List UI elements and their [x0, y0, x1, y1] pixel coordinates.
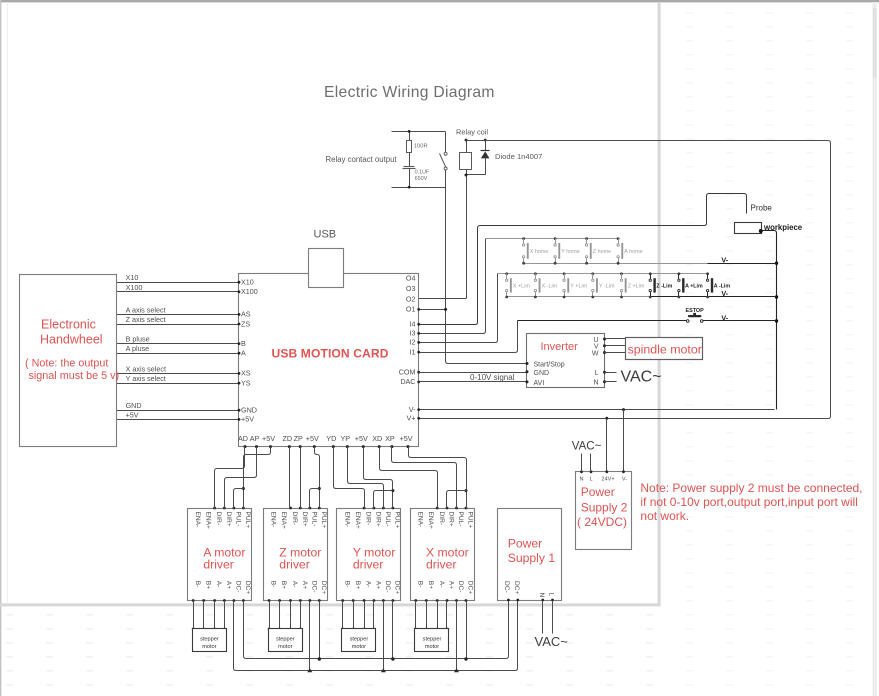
svg-text:driver: driver: [353, 557, 383, 571]
svg-text:24V+: 24V+: [601, 477, 614, 483]
svg-text:DAC: DAC: [400, 377, 415, 386]
svg-text:V-: V-: [409, 405, 416, 414]
svg-text:DC+: DC+: [467, 581, 474, 595]
svg-text:DIR+: DIR+: [375, 512, 382, 527]
svg-text:+5V: +5V: [306, 434, 319, 443]
svg-text:ENA-: ENA-: [343, 512, 350, 528]
svg-text:Power: Power: [508, 537, 543, 551]
svg-text:signal must be 5 v): signal must be 5 v): [29, 370, 120, 382]
svg-text:X home: X home: [530, 249, 549, 255]
svg-text:AVI: AVI: [534, 380, 545, 387]
svg-text:ENA-: ENA-: [194, 512, 201, 528]
svg-text:Relay contact output: Relay contact output: [326, 155, 398, 164]
svg-text:AP: AP: [250, 434, 260, 443]
svg-text:PUL+: PUL+: [320, 512, 327, 529]
svg-text:Electronic: Electronic: [41, 318, 96, 332]
svg-text:V-: V-: [721, 255, 728, 264]
svg-text:V+: V+: [407, 414, 416, 423]
svg-text:Z home: Z home: [593, 249, 611, 255]
svg-text:A +Lim: A +Lim: [685, 283, 703, 289]
svg-text:driver: driver: [426, 557, 456, 571]
svg-text:A: A: [241, 349, 246, 358]
svg-text:Power: Power: [581, 485, 615, 499]
svg-text:A-: A-: [215, 581, 222, 588]
svg-text:N: N: [593, 380, 598, 387]
svg-text:B+: B+: [354, 581, 361, 589]
svg-text:A-: A-: [365, 581, 372, 588]
svg-text:Electric Wiring Diagram: Electric Wiring Diagram: [324, 84, 495, 101]
svg-text:A pluse: A pluse: [126, 344, 150, 353]
svg-text:GND: GND: [241, 406, 257, 415]
svg-text:0.1UF: 0.1UF: [415, 170, 430, 176]
svg-text:B-: B-: [270, 581, 277, 588]
svg-text:VAC~: VAC~: [621, 368, 662, 385]
svg-text:stepper: stepper: [350, 636, 369, 642]
svg-text:0-10V signal: 0-10V signal: [470, 373, 515, 382]
svg-text:motor: motor: [425, 644, 439, 650]
svg-text:DC+: DC+: [244, 581, 251, 595]
svg-text:ENA+: ENA+: [204, 512, 211, 530]
svg-text:L: L: [548, 593, 555, 597]
svg-text:B+: B+: [204, 581, 211, 589]
svg-text:X100: X100: [126, 283, 143, 292]
svg-text:Supply 2: Supply 2: [581, 501, 628, 515]
svg-text:DC-: DC-: [310, 581, 317, 593]
svg-text:GND: GND: [126, 401, 142, 410]
svg-text:Diode 1n4007: Diode 1n4007: [495, 152, 542, 161]
svg-text:AD: AD: [238, 434, 248, 443]
svg-text:driver: driver: [279, 557, 309, 571]
svg-text:DC+: DC+: [513, 581, 520, 595]
svg-text:motor: motor: [352, 644, 366, 650]
svg-text:ENA+: ENA+: [280, 512, 287, 530]
svg-text:driver: driver: [203, 557, 233, 571]
svg-text:DIR+: DIR+: [301, 512, 308, 527]
svg-text:VAC~: VAC~: [572, 441, 602, 453]
svg-text:ENA+: ENA+: [354, 512, 361, 530]
svg-text:V-: V-: [721, 313, 728, 322]
svg-text:I4: I4: [410, 320, 416, 329]
svg-text:DC-: DC-: [384, 581, 391, 593]
svg-text:DIR-: DIR-: [438, 512, 445, 526]
svg-text:( 24VDC): ( 24VDC): [577, 515, 627, 529]
svg-text:stepper: stepper: [200, 636, 219, 642]
svg-text:DIR+: DIR+: [225, 512, 232, 527]
svg-text:Inverter: Inverter: [541, 341, 579, 353]
svg-text:Handwheel: Handwheel: [40, 333, 103, 347]
svg-text:( Note: the output: ( Note: the output: [25, 358, 108, 370]
svg-text:YD: YD: [326, 434, 336, 443]
svg-text:N: N: [538, 593, 545, 598]
svg-text:A+: A+: [448, 581, 455, 589]
svg-text:X -Lim: X -Lim: [542, 283, 558, 289]
svg-text:B: B: [241, 339, 246, 348]
svg-text:X100: X100: [241, 287, 258, 296]
svg-text:DIR-: DIR-: [215, 512, 222, 526]
svg-text:A+: A+: [301, 581, 308, 589]
svg-text:Y -Lim: Y -Lim: [599, 283, 615, 289]
svg-text:+5V: +5V: [126, 410, 139, 419]
svg-text:DC+: DC+: [320, 581, 327, 595]
svg-text:Supply 1: Supply 1: [508, 551, 556, 565]
svg-text:Y home: Y home: [561, 249, 579, 255]
svg-text:PUL-: PUL-: [235, 512, 242, 527]
svg-text:X10: X10: [241, 278, 254, 287]
svg-text:X axis select: X axis select: [126, 364, 166, 373]
svg-text:O2: O2: [406, 294, 416, 303]
svg-text:not work.: not work.: [640, 509, 689, 523]
svg-text:+5V: +5V: [400, 434, 413, 443]
svg-text:PUL-: PUL-: [310, 512, 317, 527]
svg-text:ENA-: ENA-: [270, 512, 277, 528]
svg-text:ZD: ZD: [283, 434, 293, 443]
svg-text:X10: X10: [126, 273, 139, 282]
svg-text:stepper: stepper: [276, 636, 295, 642]
svg-text:A-: A-: [291, 581, 298, 588]
svg-text:PUL+: PUL+: [467, 512, 474, 529]
svg-text:O3: O3: [406, 284, 416, 293]
svg-text:spindle motor: spindle motor: [628, 343, 702, 357]
svg-text:Probe: Probe: [751, 204, 773, 213]
svg-text:Start/Stop: Start/Stop: [534, 362, 565, 369]
svg-text:V-: V-: [622, 477, 627, 483]
svg-text:X +Lim: X +Lim: [513, 283, 530, 289]
svg-text:N: N: [579, 477, 583, 483]
svg-text:DIR-: DIR-: [365, 512, 372, 526]
svg-text:YS: YS: [241, 378, 251, 387]
svg-text:USB MOTION CARD: USB MOTION CARD: [272, 346, 389, 360]
svg-text:if not 0-10v port,output port,: if not 0-10v port,output port,input port…: [640, 495, 857, 509]
svg-text:DC-: DC-: [235, 581, 242, 593]
svg-text:XD: XD: [372, 434, 382, 443]
svg-text:B-: B-: [343, 581, 350, 588]
svg-text:O1: O1: [406, 305, 416, 314]
svg-text:DIR-: DIR-: [291, 512, 298, 526]
svg-text:PUL-: PUL-: [457, 512, 464, 527]
svg-text:A home: A home: [624, 249, 642, 255]
svg-text:USB: USB: [314, 228, 337, 240]
svg-text:Note: Power supply 2 must be c: Note: Power supply 2 must be connected,: [640, 481, 862, 495]
svg-text:ENA-: ENA-: [416, 512, 423, 528]
svg-text:ZS: ZS: [241, 319, 250, 328]
svg-text:stepper: stepper: [423, 636, 442, 642]
svg-text:A+: A+: [375, 581, 382, 589]
svg-text:ENA+: ENA+: [427, 512, 434, 530]
svg-text:COM: COM: [399, 368, 416, 377]
svg-text:L: L: [595, 370, 599, 377]
svg-text:Relay coil: Relay coil: [456, 128, 488, 137]
svg-text:AS: AS: [241, 310, 251, 319]
svg-text:B pluse: B pluse: [126, 335, 150, 344]
svg-text:L: L: [589, 477, 592, 483]
svg-text:650V: 650V: [415, 176, 428, 182]
svg-text:motor: motor: [202, 644, 216, 650]
svg-text:DIR+: DIR+: [448, 512, 455, 527]
svg-text:I3: I3: [410, 329, 416, 338]
svg-text:Z axis select: Z axis select: [126, 315, 166, 324]
svg-text:DC-: DC-: [457, 581, 464, 593]
svg-text:A+: A+: [225, 581, 232, 589]
svg-text:PUL+: PUL+: [394, 512, 401, 529]
svg-text:+5V: +5V: [241, 415, 254, 424]
svg-text:V-: V-: [721, 289, 728, 298]
svg-text:100R: 100R: [414, 144, 428, 150]
svg-text:I1: I1: [410, 347, 416, 356]
svg-text:B-: B-: [416, 581, 423, 588]
svg-text:YP: YP: [341, 434, 351, 443]
svg-text:PUL-: PUL-: [384, 512, 391, 527]
svg-text:VAC~: VAC~: [535, 634, 569, 649]
svg-text:I2: I2: [410, 338, 416, 347]
svg-text:W: W: [592, 350, 599, 357]
svg-text:+5V: +5V: [262, 434, 275, 443]
svg-text:O4: O4: [406, 273, 416, 282]
svg-text:B-: B-: [194, 581, 201, 588]
svg-text:B+: B+: [427, 581, 434, 589]
svg-text:Y axis select: Y axis select: [126, 374, 166, 383]
svg-text:DC-: DC-: [503, 581, 510, 593]
svg-text:A-: A-: [438, 581, 445, 588]
svg-text:Z -Lim: Z -Lim: [656, 283, 672, 289]
svg-text:GND: GND: [534, 370, 550, 377]
svg-text:+5V: +5V: [355, 434, 368, 443]
svg-text:PUL+: PUL+: [244, 512, 251, 529]
svg-text:Z +Lim: Z +Lim: [628, 283, 645, 289]
svg-text:XP: XP: [385, 434, 395, 443]
svg-text:ZP: ZP: [294, 434, 303, 443]
svg-text:Y +Lim: Y +Lim: [570, 283, 587, 289]
svg-text:A axis select: A axis select: [126, 305, 166, 314]
svg-text:B+: B+: [280, 581, 287, 589]
svg-text:DC+: DC+: [394, 581, 401, 595]
svg-text:motor: motor: [278, 644, 292, 650]
svg-text:XS: XS: [241, 369, 251, 378]
